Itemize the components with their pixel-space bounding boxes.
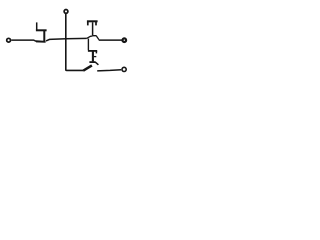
transistor T2 gate line: [92, 22, 94, 35]
transistor T1 drain stub: [36, 22, 38, 30]
transistor T2 gate foot: [92, 35, 96, 37]
transistor T3 stem: [92, 51, 94, 61]
wire (T3 source tail): [95, 62, 98, 65]
transistor T3 middle tick: [94, 56, 96, 58]
transistor T2 channel bar: [87, 20, 98, 22]
transistor T1 gate plate: [43, 31, 45, 42]
wire (branch down to T3): [87, 39, 89, 51]
transistor T2 left leg: [87, 22, 89, 25]
transistor T2 right leg: [95, 22, 97, 25]
wire (T2 source diagonal): [96, 36, 99, 40]
wire (to right terminal): [99, 39, 122, 41]
wire (left input wire): [11, 40, 36, 41]
gate arrow of transistor T1: [36, 40, 46, 43]
gate arrow of transistor T3: [83, 65, 92, 70]
wire (T1 to center rail): [46, 38, 87, 41]
transistor T3 bottom bar: [89, 61, 95, 63]
wire (to bottom terminal): [97, 70, 121, 71]
transistor T3 top bar: [88, 50, 97, 52]
node B (top terminal): [64, 10, 68, 14]
node C (right terminal): [123, 38, 127, 42]
transistor T1 channel bar: [36, 29, 47, 31]
wire (vertical rail and bottom run): [66, 14, 84, 71]
node D (bottom terminal): [122, 67, 126, 71]
wire (jog up to T2 gate): [87, 36, 93, 38]
transistor T3 top-right serif: [95, 51, 97, 53]
node A (left input terminal): [7, 38, 11, 42]
